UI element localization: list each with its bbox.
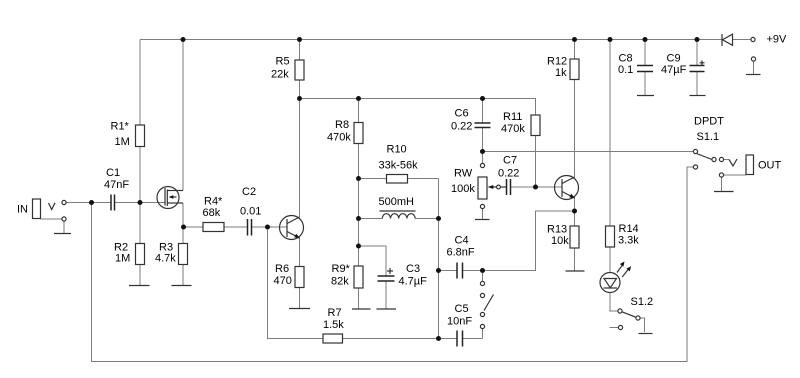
jack J2 OUT sleeve terminal [719,173,723,177]
wire C4 right lead [463,270,483,272]
switch S1.2 open terminal [618,325,622,329]
svg-text:OUT: OUT [758,160,782,172]
svg-text:R12: R12 [547,56,567,68]
ground IN jack [54,233,71,235]
svg-text:S1.1: S1.1 [697,131,720,143]
ground RW [475,219,490,221]
wire R5 top lead [299,40,301,61]
transistor FET input stage [157,187,183,209]
wire C4 left lead [439,270,458,272]
resistor R12 [570,59,579,80]
switch S2 contacts between C4 and C5 [480,281,484,328]
C3 plus sign [387,268,393,274]
resistor R1 [136,125,145,147]
LED arrows [617,262,631,278]
wire R9 bottom lead [358,288,360,309]
node R5 bottom [297,96,302,101]
wire right tank column [438,219,440,339]
transistor Q2 [555,176,579,200]
resistor R11 [531,115,540,136]
wire R7 to C5 [343,338,458,340]
svg-text:C9: C9 [667,53,681,65]
wire C8 top lead [644,40,646,66]
wire inductor left lead [359,218,383,220]
wire C3 bottom lead [385,281,387,309]
svg-text:10nF: 10nF [447,316,472,328]
wire C6 bottom lead [482,128,484,152]
switch S1.1 throw terminal bottom [693,165,697,169]
wire C7 node to Q2 base [536,186,563,188]
switch S1.2 throw terminal [636,316,640,320]
potentiometer RW bottom terminal [480,204,484,208]
wire node row y98 [300,98,537,100]
wire left tank column [358,179,360,267]
svg-text:R14: R14 [619,223,639,235]
node R10 left [356,176,361,181]
wire R2 top lead [139,203,141,244]
node top rail R14 [608,37,613,42]
svg-text:R7: R7 [328,307,342,319]
svg-text:1.5k: 1.5k [323,319,344,331]
battery terminal +9V [751,37,755,41]
svg-text:R6: R6 [275,263,289,275]
wire C2 node down to R7 [268,227,324,339]
svg-text:10k: 10k [551,235,569,247]
ground battery [746,74,761,76]
switch S2 lever [484,295,494,311]
wire switch chain top [482,271,484,282]
node C3 branch [356,244,361,249]
ground R13 [566,270,585,272]
svg-text:22k: 22k [271,69,289,81]
node top rail R12 [572,37,577,42]
wire R3 top lead [182,227,184,244]
wire FET source column [182,203,184,227]
LED D2 [600,273,620,293]
svg-text:0.22: 0.22 [451,121,472,133]
resistor R13 [570,226,579,248]
svg-text:68k: 68k [203,207,221,219]
resistor R3 [179,244,188,265]
wire S1.2 stub [610,327,619,329]
wire node row y151 to switch S1.1 [483,151,694,153]
svg-text:IN: IN [17,204,28,216]
diode D1 [722,34,733,46]
svg-text:R4*: R4* [204,196,223,208]
ground R2 [129,285,150,287]
capacitor C6 [475,123,491,128]
svg-text:C1: C1 [106,167,120,179]
node C4 right [480,268,485,273]
node FET source [181,225,186,230]
wire Q2 emitter lead [574,198,576,227]
ground C3 [377,308,397,310]
switch S1.1 throw terminal top [693,149,697,153]
potentiometer RW wiper arrow [488,185,507,189]
wire R8 top lead [358,99,360,123]
wire FET drain column [182,40,184,191]
wire R10 to inductor node [438,179,440,219]
jack J1 IN tip terminal [62,200,66,204]
svg-text:470k: 470k [501,123,525,135]
underline L1 [380,210,416,212]
svg-text:C2: C2 [242,186,256,198]
wire R10 left lead [359,178,387,180]
capacitor C8 [637,66,653,72]
switch S1.2 common terminal [618,309,622,313]
svg-text:RW: RW [454,168,473,180]
node R7 C5 [436,336,441,341]
node top rail R5 [297,37,302,42]
switch S1.2 lever [622,312,636,318]
wire pot top lead [482,152,484,164]
wire +9V top rail [140,39,722,41]
ground S1.2 [639,333,653,335]
capacitor C1 [111,195,115,211]
jack J2 OUT body [746,155,754,175]
resistor R5 [295,60,304,80]
switch S1.1 jack tip terminal [719,157,723,161]
svg-text:1k: 1k [555,67,567,79]
svg-text:C8: C8 [619,53,633,65]
resistor R9 [354,266,363,288]
transistor Q1 [280,216,304,240]
svg-text:C6: C6 [455,108,469,120]
node inductor left [356,216,361,221]
wire bypass loop [92,167,694,362]
C9 plus sign [700,60,705,65]
node top rail C9 [695,37,700,42]
svg-text:0.01: 0.01 [240,206,261,218]
wire OUT sleeve link [724,174,747,176]
wire C2 to Q1 base [252,226,287,228]
node Q2 base C7 [533,185,538,190]
wire C9 top lead [696,40,698,66]
potentiometer RW wiper terminal [497,185,501,189]
svg-text:+9V: +9V [767,34,788,46]
wire C3 branch [359,246,387,276]
svg-text:82k: 82k [331,276,349,288]
wire C1 to gate node [115,202,141,204]
wire OUT tip link [724,159,730,161]
svg-text:500mH: 500mH [379,196,415,208]
node top rail FET drain [181,37,186,42]
wire pot ground lead [482,209,484,220]
svg-text:R13: R13 [547,224,567,236]
wire R14 column [609,40,611,227]
ground R9 [352,308,371,310]
svg-text:4.7k: 4.7k [155,253,176,265]
wire R12 top lead [574,40,576,60]
node C4 left [436,268,441,273]
svg-text:470k: 470k [327,132,351,144]
resistor R2 [136,244,145,265]
wire R14 to LED [609,247,611,272]
capacitor C3 [378,276,395,281]
svg-text:C5: C5 [455,303,469,315]
ground OUT jack [714,191,734,193]
svg-text:1M: 1M [115,253,130,265]
wire input to C1 [66,202,111,204]
wire LED to S1.2 [610,292,618,311]
resistor R4 [203,223,224,232]
resistor R8 [354,123,363,144]
wire R8 bottom lead [358,144,360,179]
wire R1 top lead [139,40,141,126]
svg-text:33k-56k: 33k-56k [379,160,419,172]
node inductor right [436,216,441,221]
wire R11 bottom lead [535,136,537,188]
wire C6 top lead [482,99,484,124]
node C6 bottom [480,149,485,154]
wire Q1 emitter to R6 [299,238,301,267]
jack J2 OUT tip contact [729,159,737,166]
jack J1 IN body [33,199,41,219]
svg-text:1M: 1M [115,136,130,148]
resistor R10 [387,175,408,184]
svg-text:DPDT: DPDT [694,116,724,128]
wire R6 bottom lead [299,288,301,309]
wire R5 bottom to Q1 collector [299,80,301,218]
node C6 top [480,96,485,101]
wire OUT sleeve ground lead [721,177,723,192]
wire C7 right lead [511,186,536,188]
wire R13 bottom lead [574,248,576,271]
resistor R7 [323,334,343,343]
capacitor C2 [248,219,252,236]
node top rail C8 [643,37,648,42]
wire source node to R4 [184,226,204,228]
svg-text:6.8nF: 6.8nF [447,247,475,259]
capacitor C9 [690,66,705,72]
svg-text:R5: R5 [276,56,290,68]
svg-text:R9*: R9* [332,263,351,275]
svg-text:100k: 100k [451,183,475,195]
jack J1 IN sleeve terminal [62,217,66,221]
node R8 top [356,96,361,101]
node Q2 emitter [572,209,577,214]
wire C9 bottom lead [696,72,698,96]
wire S1.2 to ground [640,318,645,332]
ground R3 [172,285,192,287]
svg-text:C3: C3 [406,263,420,275]
wire R1 bottom lead [139,147,141,203]
wire R3 bottom lead [182,265,184,286]
wire switch chain bottom [482,329,484,339]
wire battery ground lead [753,61,755,75]
wire IN jack sleeve [41,218,63,220]
svg-text:R8: R8 [335,119,349,131]
switch S1.1 pole terminal [712,157,716,161]
svg-text:R11: R11 [503,111,522,123]
svg-text:3.3k: 3.3k [618,235,639,247]
wire inductor right lead [415,218,438,220]
wire C8 bottom lead [644,72,646,96]
potentiometer RW top terminal [480,163,484,167]
node FET gate [138,200,143,205]
wire R12 to Q2 collector [574,80,576,178]
inductor L1 500mH [382,214,415,219]
wire C5 right lead [463,338,483,340]
wire R10 right lead [408,178,439,180]
battery ground terminal [751,57,755,61]
ground R6 [289,308,310,310]
capacitor C4 [457,263,463,279]
svg-text:4.7µF: 4.7µF [399,276,428,288]
svg-text:R10: R10 [387,144,407,156]
svg-text:470: 470 [274,275,292,287]
switch S1.1 lever [697,154,713,160]
svg-text:0.1: 0.1 [618,64,633,76]
resistor R6 [295,267,304,288]
svg-text:47µF: 47µF [661,64,687,76]
wire gate node to FET gate [140,202,165,204]
node Q1 base [265,225,270,230]
capacitor C5 [457,331,463,347]
wire IN sleeve ground lead [63,221,65,234]
wire R4 to C2 [224,226,247,228]
svg-text:C4: C4 [455,235,469,247]
node input bypass [89,200,94,205]
wire R2 bottom lead [139,265,141,286]
svg-text:0.22: 0.22 [498,168,519,180]
resistor R14 [606,226,615,247]
ground C9 [690,95,706,97]
wire diode to battery terminal [733,39,752,41]
svg-text:47nF: 47nF [104,179,129,191]
svg-text:R1*: R1* [111,121,130,133]
wire R11 top lead [535,99,538,116]
capacitor C7 [507,179,511,195]
jack J1 IN tip contact [49,203,56,210]
potentiometer RW body [478,177,487,199]
ground C8 [637,95,654,97]
wire feedback from C4 node to Q2 emitter [483,211,575,271]
svg-text:S1.2: S1.2 [631,296,654,308]
svg-text:C7: C7 [503,155,517,167]
